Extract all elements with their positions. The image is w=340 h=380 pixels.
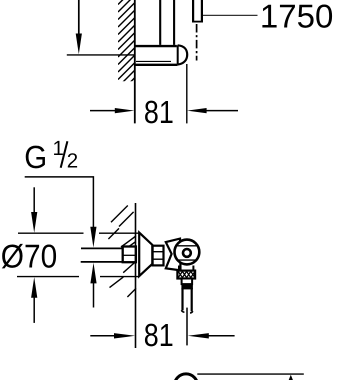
lever handle	[166, 239, 181, 271]
dimension 81 top: left arrow	[90, 108, 134, 113]
svg-text:81: 81	[144, 94, 174, 130]
svg-text:81: 81	[144, 317, 174, 353]
thread up arrow	[90, 263, 96, 308]
wall bracket arm	[135, 46, 178, 65]
leader line to 1750 label	[203, 14, 258, 16]
leader line bottom	[197, 373, 303, 375]
escutcheon bell	[139, 233, 152, 277]
label G 1/2	[24, 137, 78, 175]
hand shower of next figure (cut at bottom)	[174, 374, 197, 380]
holder axis dash-dot line	[196, 24, 198, 61]
G 1/2 leader with down arrow	[25, 177, 97, 248]
extension line right of top 81	[186, 64, 188, 123]
up arrow bottom (cut)	[288, 375, 293, 380]
extension line right of bottom 81	[186, 308, 188, 346]
svg-text:1: 1	[53, 137, 64, 160]
hose band	[181, 284, 193, 289]
screw ring	[183, 249, 191, 257]
wall hatching top figure	[118, 0, 135, 94]
collar	[182, 279, 193, 285]
dimension line O70 bottom with up arrow	[17, 277, 139, 323]
wall hatch marks lower figure	[108, 206, 136, 298]
dimension 81 top: right arrow	[187, 108, 238, 113]
connector knurl	[153, 246, 164, 266]
height reference line	[67, 54, 135, 56]
hand shower holder (cut at top)	[192, 0, 203, 22]
svg-text:Ø70: Ø70	[1, 237, 57, 274]
chord lines on valve face	[176, 246, 197, 260]
neck below valve	[179, 266, 193, 271]
bracket cap (rounded end)	[178, 45, 188, 64]
svg-text:2: 2	[67, 150, 78, 173]
dimension line 1750 vertical with down arrow	[76, 0, 82, 54]
svg-text:G: G	[24, 139, 47, 175]
shower rail (cut at top)	[160, 0, 174, 45]
svg-text:1750: 1750	[260, 0, 333, 35]
outlet pipe	[181, 288, 192, 313]
union nut	[123, 247, 136, 263]
wall face line lower figure	[135, 203, 137, 348]
dimension 81 bottom: right arrow	[188, 333, 235, 338]
wall face line top figure	[134, 0, 136, 123]
hose nut knurled	[177, 271, 195, 279]
valve body circle	[175, 240, 200, 265]
dimension line O70 top with down arrow	[18, 187, 139, 233]
dimension 81 bottom: left arrow	[90, 333, 135, 338]
supply pipe	[81, 248, 123, 262]
